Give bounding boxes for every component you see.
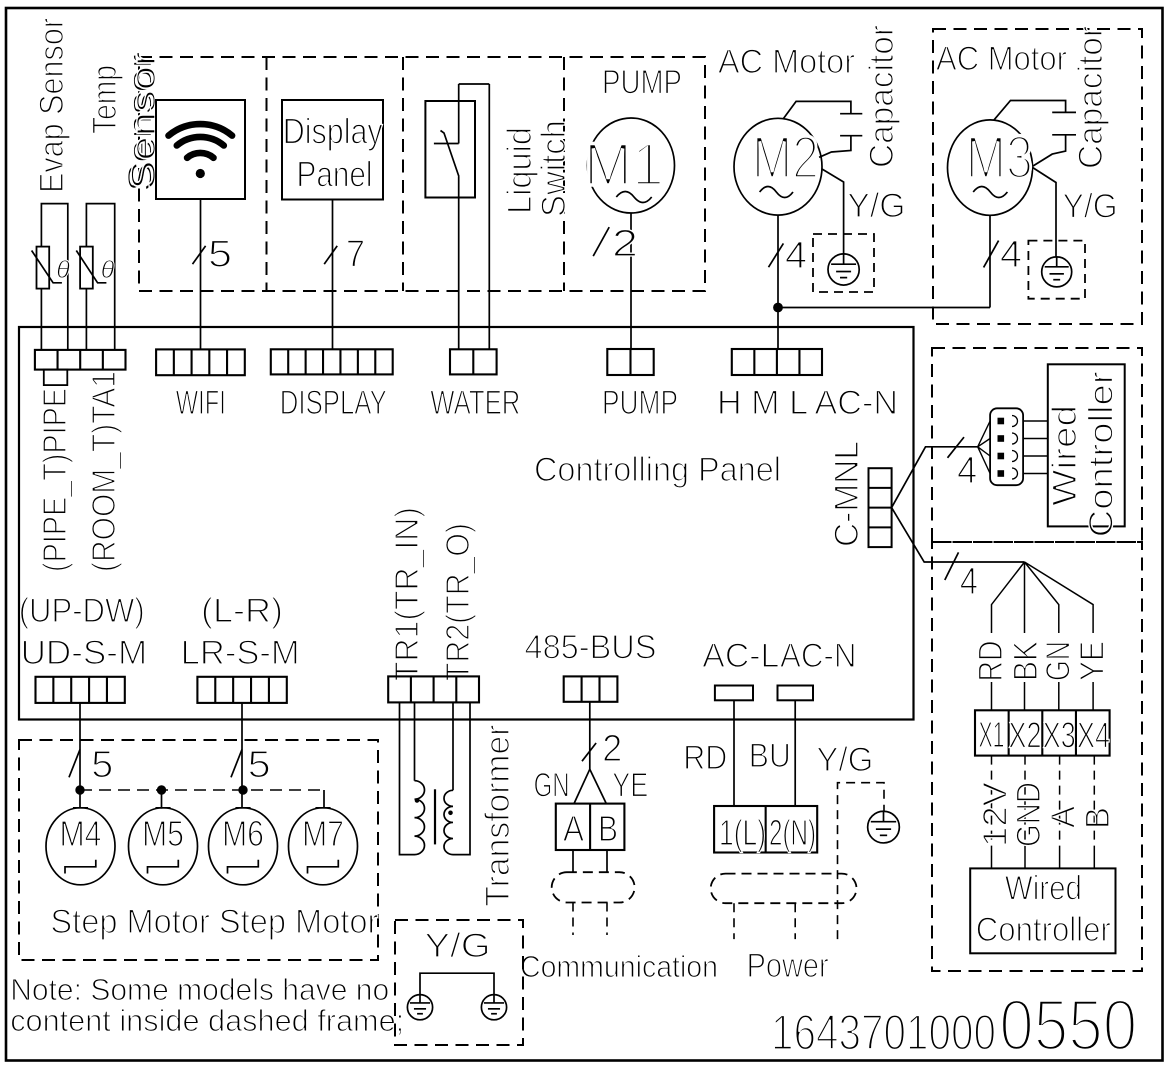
dashed wire B out — [606, 903, 608, 936]
svg-text:A: A — [1045, 806, 1083, 828]
wire liquid switch left lead — [458, 84, 460, 144]
pump connector (2-pin) — [607, 349, 653, 375]
wire evap sensor loop — [41, 204, 67, 350]
slash lower fan wire — [945, 552, 959, 580]
svg-text:Wired: Wired — [1046, 405, 1084, 506]
fan wires to RD BK GN YE — [992, 562, 1094, 633]
svg-text:RD: RD — [683, 739, 727, 777]
AC-L connector — [715, 686, 753, 701]
terminal block A B — [556, 804, 625, 850]
motor M3 circle — [948, 120, 1033, 215]
junction dot — [774, 303, 783, 312]
dashed wires X to WC2 — [992, 756, 1095, 848]
svg-text:Liquid: Liquid — [501, 127, 539, 214]
transformer primary winding — [415, 781, 425, 855]
wired controller 2 box — [970, 868, 1115, 953]
svg-text:θ: θ — [56, 256, 70, 284]
wire liquid switch to water pin1 — [458, 177, 460, 350]
slash C-MNL plug wire — [948, 437, 965, 458]
terminal block 1(L) 2(N) — [714, 806, 817, 853]
dashed wire A out — [572, 903, 574, 936]
wires plug to wired controller — [1023, 421, 1048, 474]
slash 485 wire — [582, 743, 596, 761]
svg-text:4: 4 — [957, 450, 977, 492]
wire stub to M5 — [161, 790, 163, 809]
step motor M4 — [46, 808, 115, 885]
wire C-MNL to plug — [892, 447, 978, 508]
wire liquid switch bridge — [459, 83, 490, 85]
liquid switch box — [425, 101, 475, 198]
svg-text:H M L AC-N: H M L AC-N — [717, 384, 898, 422]
C-MNL connector (4-pin vertical) — [869, 468, 892, 547]
svg-text:M7: M7 — [302, 813, 344, 854]
transformer primary dot — [415, 799, 419, 803]
svg-text:Controller: Controller — [976, 911, 1111, 949]
wire M2 to junction — [777, 215, 779, 307]
svg-text:A: A — [563, 808, 584, 849]
wire A to cable — [572, 850, 574, 872]
transformer secondary winding — [444, 790, 453, 854]
thermistor RT2 (temp) — [80, 247, 93, 289]
wire fan to A — [574, 769, 590, 803]
sensor connector latch box — [44, 370, 68, 386]
wire LR connector to M6 — [241, 703, 243, 807]
svg-text:X3: X3 — [1043, 715, 1076, 756]
dashed frame Y/G grounds — [395, 920, 523, 1045]
svg-text:(ROOM_T)TA1: (ROOM_T)TA1 — [85, 371, 122, 572]
ground symbol (M2) — [828, 254, 859, 285]
slash pump wire — [593, 227, 609, 256]
svg-text:AC-N: AC-N — [780, 637, 857, 675]
svg-text:BU: BU — [749, 737, 791, 775]
dashed box ground M2 — [813, 234, 874, 292]
dashed divider wifi/display — [266, 57, 268, 291]
wire evap sensor lower lead — [40, 289, 42, 350]
wire 485 down — [589, 702, 591, 769]
svg-text:AC Motor: AC Motor — [718, 43, 855, 81]
svg-text:AC-L: AC-L — [702, 637, 779, 675]
cable sleeve (communication) — [552, 872, 635, 902]
svg-text:GN: GN — [1040, 641, 1078, 681]
wire ground bus — [420, 973, 494, 994]
svg-text:PUMP: PUMP — [602, 64, 682, 102]
dashed frame AC motor M3 — [933, 29, 1142, 324]
svg-text:485-BUS: 485-BUS — [525, 629, 657, 667]
wire temp sensor lower lead — [85, 289, 87, 350]
HML connector (4-pin) — [732, 349, 822, 375]
motor M2 circle — [734, 118, 822, 215]
wired controller 1 box — [1048, 364, 1125, 526]
svg-text:X4: X4 — [1077, 715, 1110, 756]
controlling panel box — [19, 327, 914, 720]
wire junction to HML connector — [777, 308, 779, 350]
dashed wire N out — [794, 903, 796, 939]
svg-text:LR-S-M: LR-S-M — [181, 634, 300, 672]
plug fan wires — [978, 421, 990, 474]
wire TR pin4 — [453, 702, 470, 854]
M3 ac tilde — [973, 187, 1007, 198]
svg-text:4: 4 — [1000, 234, 1022, 276]
svg-text:5: 5 — [91, 744, 113, 786]
svg-text:Transformer: Transformer — [479, 725, 517, 907]
plug connector 4-pin — [990, 408, 1023, 485]
svg-text:GN: GN — [534, 767, 570, 805]
wire C-MNL to lower fan — [892, 508, 1025, 562]
svg-text:GND: GND — [1010, 782, 1048, 847]
dashed wire Y/G — [838, 783, 885, 939]
step motor M5 — [129, 808, 198, 885]
UD-S-M connector (5-pin) — [36, 677, 125, 703]
svg-text:M2: M2 — [752, 124, 819, 191]
capacitor C2 plates — [1052, 112, 1076, 134]
junction dot M4 — [76, 786, 84, 794]
wire corner to M7 — [323, 790, 325, 808]
wifi module box — [156, 100, 245, 199]
svg-text:0550: 0550 — [999, 986, 1137, 1066]
svg-text:WIFI: WIFI — [176, 384, 226, 422]
wire temp sensor loop — [86, 204, 114, 350]
svg-text:5: 5 — [248, 744, 271, 786]
svg-text:Wired: Wired — [1005, 870, 1082, 908]
dashed wire L out — [733, 903, 735, 939]
svg-text:Controller: Controller — [1082, 371, 1120, 537]
svg-text:Sensor: Sensor — [125, 52, 163, 190]
slash M3 wire — [984, 241, 999, 268]
liquid switch contact — [434, 143, 459, 145]
svg-text:5: 5 — [208, 234, 232, 276]
svg-text:Display: Display — [283, 111, 383, 152]
svg-text:4: 4 — [960, 561, 978, 603]
svg-text:1(L): 1(L) — [719, 812, 766, 853]
water connector (2-pin) — [450, 349, 497, 374]
solid wire stubs to WC2 — [992, 848, 1095, 868]
svg-text:YE: YE — [1074, 641, 1112, 681]
svg-text:PUMP: PUMP — [602, 384, 678, 422]
transformer core bar — [434, 789, 436, 844]
svg-text:Y/G: Y/G — [816, 741, 873, 779]
display connector (7-pin) — [271, 349, 393, 374]
svg-text:TR2(TR_O): TR2(TR_O) — [439, 523, 476, 681]
cable sleeve (power) — [711, 874, 857, 904]
svg-text:4: 4 — [785, 235, 807, 277]
wire M2 to ground Y/G — [822, 169, 844, 254]
svg-text:2: 2 — [612, 223, 638, 265]
svg-text:M4: M4 — [60, 813, 102, 854]
svg-text:2: 2 — [602, 728, 622, 770]
wire M2 top to capacitor C1 — [783, 101, 851, 118]
transformer secondary dot — [449, 811, 453, 815]
wifi connector (5-pin) — [156, 349, 245, 375]
svg-text:(PIPE_T)PIPE: (PIPE_T)PIPE — [36, 388, 73, 572]
svg-text:X2: X2 — [1009, 715, 1042, 756]
svg-text:X1: X1 — [979, 714, 1005, 755]
junction dot M6 — [239, 786, 247, 794]
svg-text:M5: M5 — [142, 813, 184, 854]
svg-text:B: B — [1079, 807, 1117, 829]
svg-text:UD-S-M: UD-S-M — [21, 634, 148, 672]
wire M3 down — [989, 215, 991, 307]
wire M3 to ground Y/G — [1033, 168, 1056, 257]
dashed divider display/liquid — [402, 57, 404, 291]
AC-N connector — [778, 686, 814, 701]
wire M1 to connector — [630, 213, 632, 349]
wire fan to B — [590, 769, 607, 803]
wire TR pin2 — [414, 702, 416, 780]
svg-text:Power: Power — [747, 947, 829, 985]
wire display to connector — [332, 200, 334, 350]
dashed frame step motors — [19, 740, 378, 960]
svg-text:RD: RD — [972, 641, 1010, 682]
wire M3 top to capacitor C2 — [994, 101, 1066, 120]
svg-text:M6: M6 — [222, 813, 264, 854]
capacitor C1 plates — [840, 114, 862, 136]
dashed bus wire M4-M7 — [80, 789, 324, 791]
svg-text:2(N): 2(N) — [769, 812, 816, 853]
svg-text:TR1(TR_IN): TR1(TR_IN) — [388, 507, 425, 681]
wifi icon — [187, 153, 213, 158]
svg-text:M3: M3 — [966, 124, 1033, 191]
wire TR pin3 — [452, 702, 454, 790]
dashed frame wired controller 2 — [932, 542, 1142, 971]
step motor M7 — [289, 808, 358, 885]
M2 ac tilde — [760, 187, 793, 198]
svg-text:B: B — [598, 808, 618, 849]
slash UD wire — [69, 749, 80, 777]
svg-text:Y/G: Y/G — [425, 927, 491, 965]
wire wifi to connector — [200, 199, 202, 349]
svg-text:Y/G: Y/G — [847, 187, 905, 225]
dashed box ground M3 — [1028, 241, 1085, 299]
svg-text:(L-R): (L-R) — [201, 592, 283, 630]
motor M1 circle — [588, 118, 675, 213]
svg-text:θ: θ — [101, 256, 115, 284]
svg-text:Panel: Panel — [297, 154, 373, 195]
step motor M6 — [209, 808, 278, 885]
svg-text:WATER: WATER — [430, 384, 520, 422]
TR connector (4-pin) — [388, 676, 479, 702]
svg-text:Note: Some models have no: Note: Some models have no — [10, 972, 389, 1007]
thermistor RT1 strike — [32, 251, 62, 283]
svg-text:12V: 12V — [977, 782, 1015, 847]
ground symbol (power) — [868, 811, 900, 843]
thermistor RT2 strike — [76, 251, 106, 283]
dashed frame sensor/wifi section — [139, 57, 705, 291]
svg-text:Capacitor: Capacitor — [1072, 26, 1110, 169]
svg-text:Y/G: Y/G — [1063, 188, 1118, 226]
ground symbol (M3) — [1042, 257, 1072, 287]
svg-text:(UP-DW): (UP-DW) — [19, 592, 145, 630]
wire capacitor C1 bottom to M2 — [819, 136, 851, 158]
ground symbol right — [481, 995, 506, 1020]
svg-text:Evap Sensor: Evap Sensor — [33, 18, 71, 193]
svg-text:Step Motor Step Motor: Step Motor Step Motor — [50, 903, 378, 941]
wire AC-N down — [794, 700, 796, 806]
slash display wire — [324, 246, 337, 264]
slash M2 wire — [769, 243, 784, 267]
LR-S-M connector (5-pin) — [197, 677, 286, 703]
svg-text:DISPLAY: DISPLAY — [280, 384, 387, 422]
svg-text:Temp: Temp — [86, 65, 124, 134]
M1 ac tilde — [616, 192, 651, 203]
wire UD connector to M4 — [79, 703, 81, 808]
liquid switch blade — [441, 131, 459, 177]
485 connector (3-pin) — [564, 676, 618, 701]
sensor connector (4-pin) — [35, 350, 126, 370]
wire capacitor C2 bottom to M3 — [1033, 135, 1066, 166]
wire liquid switch to water pin2 — [488, 84, 490, 349]
svg-text:Capacitor: Capacitor — [863, 25, 901, 168]
display panel box — [282, 100, 383, 200]
wire AC-L down — [733, 700, 735, 806]
wire TR pin1 — [400, 702, 415, 854]
svg-text:Controlling Panel: Controlling Panel — [534, 451, 781, 489]
junction dot M5 — [157, 786, 165, 794]
svg-text:Switch: Switch — [535, 120, 573, 217]
svg-text:Communication: Communication — [520, 949, 718, 984]
dashed frame wired controller 1 — [932, 348, 1142, 542]
svg-text:AC Motor: AC Motor — [936, 40, 1067, 78]
terminal strip X1 X2 X3 X4 — [975, 710, 1110, 755]
dashed divider liquid/pump — [563, 57, 565, 291]
slash LR wire — [231, 749, 242, 777]
svg-text:content inside dashed frame;: content inside dashed frame; — [10, 1003, 404, 1038]
svg-text:YE: YE — [612, 767, 648, 805]
svg-text:M1: M1 — [584, 131, 664, 198]
svg-text:C-MNL: C-MNL — [828, 441, 866, 547]
wire B to cable — [606, 850, 608, 872]
ground symbol left — [407, 995, 432, 1020]
svg-text:7: 7 — [346, 234, 365, 276]
wires labels to X terminals — [992, 682, 1094, 710]
thermistor RT1 (evap) — [37, 247, 50, 289]
wire junction to M3 — [778, 307, 990, 309]
svg-text:1643701000: 1643701000 — [771, 1005, 996, 1061]
slash wifi wire — [193, 246, 206, 264]
